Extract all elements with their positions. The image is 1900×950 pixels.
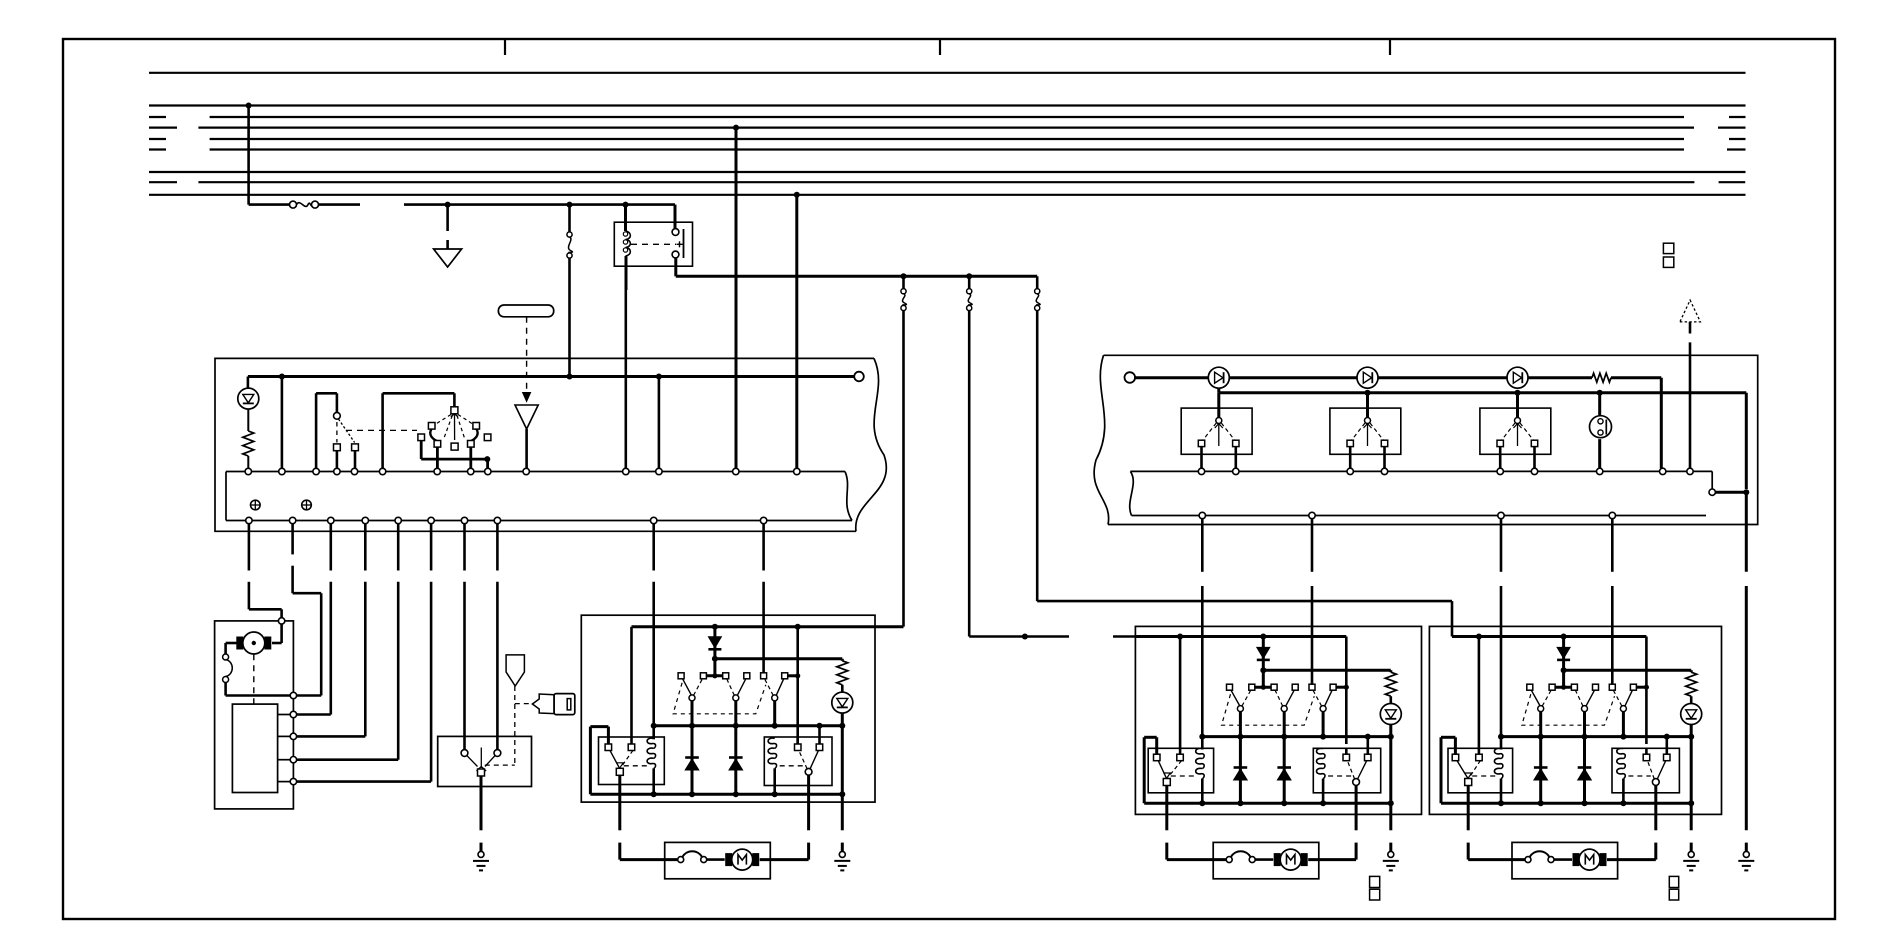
pin row2-6 [428, 517, 434, 523]
pin right row1-7 [1597, 468, 1603, 474]
relay W1-R box [764, 737, 832, 786]
pin right row1-3 [1347, 468, 1353, 474]
actuator arrow [515, 393, 538, 472]
wire master to W1 coil [652, 524, 655, 726]
mech link motor to regulator [253, 654, 255, 704]
pin row2-10 [760, 517, 766, 523]
relay coil wire [624, 205, 627, 231]
bus wire 3 [149, 116, 1746, 118]
pin row1-3 [313, 468, 319, 474]
bus wire 6 [149, 148, 1746, 150]
switch unit 2 box [1330, 408, 1401, 454]
diode W3-1 [1557, 637, 1570, 674]
node splice [1022, 634, 1028, 640]
wire W1 motor right [760, 802, 809, 860]
diode W1-3 [729, 726, 743, 794]
wire connector to terminal [226, 683, 290, 696]
mech link dashed [526, 317, 528, 390]
wire W1 middle rail [651, 723, 843, 729]
wire row1 output link [1715, 489, 1749, 495]
pin motor unit right [290, 692, 296, 698]
node fuse line to breaker column [567, 202, 573, 208]
window motor W3 [1573, 849, 1607, 870]
wire W3 conn to motor [1554, 858, 1572, 861]
wire W3 middle rail [1498, 734, 1691, 740]
wire W3 contact F link [1636, 685, 1649, 690]
pin motor unit top [278, 618, 284, 624]
wire W2 conn to motor [1255, 858, 1273, 861]
bus wire 5 [149, 138, 1746, 140]
ground G-right [1738, 851, 1754, 870]
pin row1-8 [468, 468, 474, 474]
wire rightbox to W2 coil [1201, 519, 1204, 737]
switch unit 3 box [1480, 408, 1551, 454]
diode W3-2 [1534, 737, 1548, 804]
wire W1 to ground [841, 794, 844, 851]
relay W2-L [1154, 737, 1205, 804]
relay W2-L box [1148, 748, 1213, 793]
diode W1-1 [708, 627, 721, 662]
wire motor to connector [226, 643, 237, 654]
wire W3 motor right [1607, 814, 1656, 859]
pin row2-7 [461, 517, 467, 523]
master switch box outline [215, 358, 886, 531]
pin right row1-2 [1233, 468, 1239, 474]
diode W2-1 [1257, 637, 1270, 674]
relay RL1 box [614, 222, 692, 266]
frame tick 2 [939, 39, 941, 55]
wire rightbox to W2 switch [1311, 519, 1314, 685]
wire row2-3 [297, 524, 331, 715]
screw symbol 2 [302, 500, 312, 510]
wire row2-1 to motor unit [249, 524, 282, 618]
pin row1-5 [351, 468, 357, 474]
frame tick 3 [1389, 39, 1391, 55]
pin row1-9 [485, 468, 491, 474]
master switch inner rail [248, 372, 864, 382]
inline connector W1 [678, 851, 707, 862]
node ground tap [445, 202, 451, 208]
wire relay coil drop [624, 290, 627, 472]
wire rightbox to W3 coil [1500, 519, 1503, 737]
pin row2-9 [651, 517, 657, 523]
bus wire 2 [149, 104, 1746, 106]
ground G-W3 [1683, 851, 1699, 870]
pin row1-14 [794, 468, 800, 474]
bus wire 9 [149, 194, 1746, 196]
node rail2 tap 3 [1597, 390, 1603, 396]
pin row2-2 [289, 517, 295, 523]
pin right row1-5 [1497, 468, 1503, 474]
pin right row2-2 [1309, 512, 1315, 518]
diode W1-2 [685, 726, 699, 794]
pin regulator 4 [278, 778, 297, 784]
lock knob symbol [506, 655, 524, 686]
indicator diode D2 [1208, 367, 1229, 388]
pin right row1 output [1709, 489, 1715, 495]
pin row2-5 [395, 517, 401, 523]
diode W3-3 [1578, 737, 1592, 804]
wire breaker1 to window sub1 rail [902, 311, 905, 627]
wire row2-8 to key switch [496, 524, 499, 749]
pin right row2-1 [1199, 512, 1205, 518]
switch SW1 bracket [316, 393, 337, 471]
mech link key cylinder [485, 686, 531, 765]
wire W2 motor left [1167, 814, 1226, 859]
wire W3 feed in-box [1452, 634, 1646, 749]
bus wire 1 [149, 72, 1746, 74]
power arrow [1680, 300, 1701, 333]
relay W1-L box [599, 737, 665, 785]
connector row 1 line [226, 472, 852, 521]
inline connector W2 [1226, 851, 1255, 862]
bus wire 8 [149, 181, 1745, 183]
connector row 2 line [226, 520, 852, 522]
wire W2-L pivot to motor [1165, 786, 1168, 815]
relay RL1 contact [672, 205, 683, 258]
pin row1-7 [434, 468, 440, 474]
wire row2-4 [297, 524, 365, 737]
switch SW2 selector [418, 407, 491, 450]
resistor W1 [837, 661, 848, 685]
switch SW1 [334, 412, 359, 471]
key cylinder switch box [438, 736, 532, 786]
node rail drop B [656, 374, 662, 380]
wire W1 second rail [715, 659, 842, 661]
wire relay output [626, 256, 1037, 290]
indicator diode D1 [238, 377, 259, 410]
wire W3 to ground [1690, 803, 1693, 851]
pin right row1-9 [1687, 468, 1693, 474]
wire W2-R pivot to motor [1355, 785, 1358, 814]
window motor W1 [725, 849, 759, 870]
node W1 rail to relay R [795, 624, 801, 630]
switch unit 1 [1198, 393, 1239, 472]
wire bus-D drop [735, 128, 738, 472]
wire W1 relayR feed drop [796, 627, 799, 744]
inline connector W3 [1525, 851, 1554, 862]
bus wire 7 [149, 171, 1746, 173]
wire W2 contact F link [1336, 685, 1349, 690]
switch unit 3 [1497, 393, 1538, 472]
pin regulator 1 [278, 711, 297, 717]
window motor W3 box [1512, 842, 1618, 878]
switch SW2 bracket [383, 393, 455, 471]
relay RL1 mech link [631, 243, 676, 245]
wire rightbox to W3 switch [1611, 519, 1614, 685]
node bus-I tap [794, 192, 800, 198]
ground G-W2 [1383, 851, 1399, 870]
wire key switch to ground [480, 776, 483, 851]
wire W1 feed rail [632, 627, 904, 737]
resistor W3 [1686, 672, 1697, 696]
diode W2-2 [1234, 737, 1248, 804]
breaker 2 [967, 276, 973, 310]
relay RL1 coil [623, 231, 630, 256]
wire W2 second rail [1263, 670, 1391, 672]
wire master to W1 switch [762, 524, 765, 673]
pin right row1-1 [1198, 468, 1204, 474]
wire row2-6 [297, 524, 431, 782]
mech link SW1 to SW2 [346, 429, 417, 431]
screw symbol 1 [251, 500, 261, 510]
pin row2-3 [328, 517, 334, 523]
wire W3 motor left [1468, 814, 1524, 859]
wire row2-7 to key switch [463, 524, 466, 749]
wire W2 bottom rail [1144, 737, 1391, 806]
wire W3-R pivot to motor [1654, 785, 1657, 814]
resistor R2 [1592, 373, 1611, 382]
pin row2-1 [246, 517, 252, 523]
switch SW2 common bar [421, 441, 490, 472]
indicator diode W3 [1681, 696, 1702, 806]
node rail2 tap 1 [1365, 390, 1371, 396]
wire W3 bottom rail [1441, 737, 1691, 806]
pin right row2-4 [1609, 512, 1615, 518]
wire W2 to ground [1389, 803, 1392, 851]
node fuse line to relay coil [623, 202, 629, 208]
frame tick 1 [504, 39, 506, 55]
motor M1 [236, 624, 281, 654]
wire rightbox output to ground [1745, 492, 1748, 851]
window motor W1 box [665, 842, 771, 878]
indicator diode D3 [1357, 367, 1378, 388]
pin right row2-3 [1498, 512, 1504, 518]
pin row2-8 [494, 517, 500, 523]
wire rail drop B [658, 377, 661, 472]
indicator diode W2 [1380, 696, 1401, 806]
wire W1 conn to motor [707, 858, 725, 861]
pin row1-6 [379, 468, 385, 474]
pin row1-1 [245, 468, 251, 474]
wire bus-B to fuse line [249, 106, 290, 205]
pin row1-13 [733, 468, 739, 474]
node relay line branch 1 [901, 273, 907, 279]
switch knob pill [498, 305, 553, 317]
bus wire 4 [149, 126, 1746, 128]
indicator diode D4 [1507, 367, 1528, 388]
pin right row1-8 [1660, 468, 1666, 474]
wire W1 motor left [620, 802, 677, 860]
W3 top diode feed node [1561, 634, 1567, 640]
window unit W1 box [581, 615, 875, 802]
indicator diode W1 [832, 685, 853, 797]
switch unit 2 [1347, 393, 1388, 472]
wire fuse to relay feed [319, 203, 676, 206]
connector squares W2 [1370, 876, 1380, 900]
node bus-B tap [246, 103, 252, 109]
wire W1 contact F link [788, 673, 801, 678]
node bus-D tap [733, 125, 739, 131]
right box rail 1 [1125, 372, 1662, 468]
pin row1-4 [334, 468, 340, 474]
pin right row1-6 [1531, 468, 1537, 474]
relay W1-R [768, 726, 823, 794]
switch cluster W3 [1522, 670, 1637, 736]
pin row2-4 [362, 517, 368, 523]
node rail drop A [279, 374, 285, 380]
relay W3-L box [1448, 748, 1513, 793]
wire W2 feed in-box [1135, 634, 1346, 749]
ground G-W1 [834, 851, 850, 870]
right box row2 line [1130, 471, 1706, 515]
right box rail 2 [1219, 388, 1747, 489]
relay W2-R [1317, 737, 1371, 804]
wire W2 middle rail [1199, 734, 1391, 740]
right box row1 line [1130, 471, 1712, 489]
relay W3-L [1452, 737, 1503, 804]
ground G-key [473, 851, 489, 870]
fuse F1 [290, 201, 319, 208]
diode W2-3 [1277, 737, 1291, 804]
wire row2-5 [297, 524, 398, 760]
window regulator box [232, 704, 277, 792]
window motor W2 [1274, 849, 1308, 870]
passenger switch box outline [1094, 355, 1758, 524]
window motor W2 box [1213, 842, 1319, 878]
pin row1-2 [279, 468, 285, 474]
wire rail drop A [281, 377, 284, 472]
W2 top diode feed node [1260, 634, 1266, 640]
breaker 3 [1035, 276, 1041, 310]
motor unit box [215, 621, 294, 809]
switch cluster W2 [1222, 670, 1337, 736]
node rail feed [567, 374, 573, 380]
relay W2-R box [1313, 748, 1380, 793]
wire row2-2 to motor unit terminal [293, 524, 322, 696]
relay W3-R box [1612, 748, 1679, 793]
pin right row1-4 [1381, 468, 1387, 474]
relay W1-L [605, 726, 655, 794]
pin regulator 2 [278, 733, 297, 739]
node rail2 tap 2 [1515, 390, 1521, 396]
pin row1-12 [656, 468, 662, 474]
pin regulator 3 [278, 757, 297, 763]
pin row1-10 [523, 468, 529, 474]
window unit W2 box [1135, 626, 1421, 814]
breaker 4 [567, 205, 573, 377]
connector squares top [1663, 243, 1673, 267]
node relay line branch 2 [966, 273, 972, 279]
connector squares W3 [1669, 876, 1678, 900]
wire breaker2 to window sub2 feed [969, 311, 1135, 637]
switch unit 1 box [1181, 408, 1252, 454]
wire breaker3 to window sub3 feed [1037, 311, 1452, 637]
switch cluster W1 [673, 659, 788, 726]
key switch contacts [461, 748, 501, 777]
key symbol [532, 694, 574, 715]
inline connector pair [223, 654, 233, 683]
wire bus-I drop [795, 195, 798, 472]
window unit W3 box [1429, 626, 1721, 814]
W1 top diode feed node [712, 624, 718, 630]
resistor R1 [243, 409, 254, 471]
wire arrow feed drop [1689, 342, 1692, 471]
pin row1-11 [623, 468, 629, 474]
ground G-chassis top [434, 205, 462, 267]
wire W1-R pivot to motor [807, 775, 810, 802]
breaker 1 [901, 276, 907, 310]
relay W3-R [1617, 737, 1670, 804]
resistor W2 [1385, 672, 1396, 696]
wire W3 second rail [1564, 670, 1692, 672]
wire W2 motor right [1308, 814, 1356, 859]
illumination lamp [1590, 393, 1612, 472]
wire W1-L pivot to motor [618, 775, 621, 802]
wire W3-L pivot to motor [1467, 786, 1470, 815]
wire W1 bottom rail [590, 727, 842, 798]
